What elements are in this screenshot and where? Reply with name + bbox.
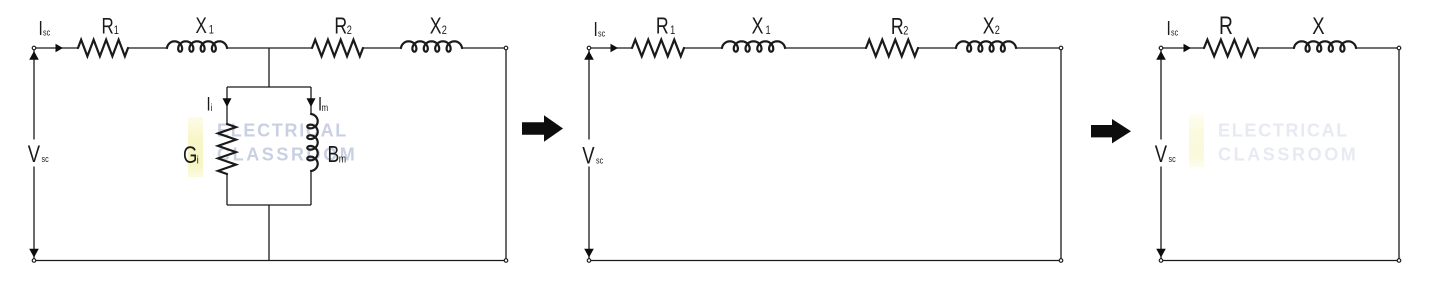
wire top segment 3 circuit1	[227, 47, 312, 49]
wire right circuit3	[1398, 48, 1400, 261]
svg-text:X: X	[196, 14, 207, 39]
svg-text:1: 1	[209, 25, 214, 37]
watermark left highlight bar	[188, 117, 203, 177]
Isc current arrow circuit1	[56, 44, 64, 53]
svg-text:2: 2	[995, 25, 1000, 37]
wire left lower segment circuit2	[588, 167, 590, 261]
node top-right circuit2	[1059, 46, 1063, 50]
svg-text:1: 1	[670, 25, 675, 37]
wire bottom circuit2	[589, 260, 1061, 262]
wire top segment 5 circuit1	[462, 47, 506, 49]
svg-text:B: B	[328, 142, 340, 168]
wire top segment 2 circuit3	[1258, 47, 1294, 49]
wire bottom circuit3	[1161, 260, 1399, 262]
svg-text:1: 1	[766, 25, 771, 37]
svg-text:ELECTRICAL: ELECTRICAL	[217, 121, 348, 141]
node top-left circuit2	[587, 46, 591, 50]
svg-text:m: m	[322, 102, 329, 113]
wire left upper segment circuit3	[1160, 48, 1162, 140]
Ii current arrow	[223, 98, 232, 107]
svg-text:V: V	[28, 141, 41, 168]
inductor X2	[401, 41, 462, 51]
svg-text:m: m	[339, 154, 346, 166]
wire Bm branch lower	[310, 171, 312, 205]
resistor R2	[312, 40, 363, 57]
node bottom-left circuit1	[32, 259, 36, 263]
Vsc arrow down circuit3	[1156, 249, 1166, 258]
node bottom-right circuit1	[504, 259, 508, 263]
resistor R1	[78, 40, 128, 57]
wire shunt top bar	[227, 86, 311, 88]
svg-text:R: R	[891, 14, 904, 40]
watermark right highlight bar	[1189, 114, 1204, 167]
inductor X1	[167, 41, 227, 51]
wire shunt return stub	[268, 205, 270, 261]
svg-text:2: 2	[442, 25, 447, 37]
svg-text:2: 2	[903, 26, 908, 38]
svg-text:G: G	[183, 142, 197, 169]
node bottom-left circuit3	[1159, 259, 1163, 263]
block arrow 1	[522, 115, 563, 141]
wire junction vertical circuit1	[268, 48, 270, 87]
svg-text:R: R	[1219, 12, 1233, 40]
svg-text:sc: sc	[596, 156, 603, 166]
wire shunt bottom bar	[227, 204, 311, 206]
resistor R1 (circuit2)	[632, 40, 684, 57]
Im current arrow	[307, 98, 316, 107]
svg-text:X: X	[1312, 13, 1324, 40]
svg-text:R: R	[102, 14, 114, 39]
resistor R2 (circuit2)	[866, 40, 918, 57]
svg-text:R: R	[656, 13, 669, 39]
Vsc arrow down circuit1	[29, 249, 39, 258]
node top-left circuit3	[1159, 46, 1163, 50]
node top-left circuit1	[32, 46, 36, 50]
conductance Gi	[218, 124, 236, 174]
wire top segment 1 circuit2	[589, 47, 632, 49]
wire left lower segment circuit3	[1160, 167, 1162, 261]
svg-text:I: I	[1167, 17, 1171, 39]
svg-text:sc: sc	[42, 154, 49, 164]
svg-text:V: V	[582, 142, 595, 169]
svg-text:sc: sc	[1169, 154, 1176, 164]
svg-text:ELECTRICAL: ELECTRICAL	[1218, 121, 1349, 141]
inductor X1 (circuit2)	[722, 41, 785, 51]
wire top segment 4 circuit1	[363, 47, 401, 49]
svg-text:i: i	[197, 154, 199, 166]
wire top segment 3 circuit2	[785, 47, 866, 49]
susceptance Bm (inductor)	[307, 114, 317, 171]
wire top segment 2 circuit2	[684, 47, 722, 49]
wire Bm branch upper	[310, 87, 312, 114]
wire top segment 4 circuit2	[918, 47, 956, 49]
svg-text:X: X	[983, 13, 995, 39]
wire top segment 3 circuit3	[1356, 47, 1399, 49]
wire top segment 1 circuit1	[34, 47, 78, 49]
wire right circuit2	[1060, 48, 1062, 261]
node bottom-left circuit2	[587, 259, 591, 263]
inductor X2 (circuit2)	[956, 41, 1016, 51]
svg-text:sc: sc	[1171, 28, 1178, 38]
wire left upper segment circuit2	[588, 48, 590, 140]
svg-text:i: i	[211, 102, 213, 113]
node bottom-right circuit2	[1059, 259, 1063, 263]
wire left lower segment circuit1	[33, 167, 35, 261]
svg-text:R: R	[334, 14, 347, 40]
svg-text:CLASSROOM: CLASSROOM	[1218, 145, 1358, 165]
svg-text:X: X	[430, 13, 442, 39]
wire top segment 5 circuit2	[1016, 47, 1061, 49]
svg-text:V: V	[1155, 141, 1168, 168]
svg-text:I: I	[39, 17, 43, 39]
Vsc arrow down circuit2	[584, 249, 594, 258]
wire top segment 2 circuit1	[128, 47, 167, 49]
svg-text:sc: sc	[598, 29, 605, 39]
Isc current arrow circuit3	[1184, 44, 1192, 53]
svg-text:2: 2	[347, 25, 352, 37]
svg-text:1: 1	[114, 25, 119, 37]
node top-right circuit1	[504, 46, 508, 50]
svg-text:I: I	[594, 18, 598, 40]
wire top segment 1 circuit3	[1161, 47, 1204, 49]
wire Gi branch lower	[226, 174, 228, 205]
resistor R	[1204, 40, 1258, 57]
Vsc arrow up circuit1	[29, 51, 39, 60]
svg-text:sc: sc	[43, 28, 50, 38]
Isc current arrow circuit2	[611, 44, 619, 53]
inductor X	[1294, 41, 1356, 51]
block arrow 2	[1091, 119, 1131, 143]
wire Gi branch upper	[226, 87, 228, 124]
wire right circuit1	[505, 48, 507, 261]
svg-text:X: X	[752, 13, 764, 39]
node top-right circuit3	[1397, 46, 1401, 50]
node bottom-right circuit3	[1397, 259, 1401, 263]
Vsc arrow up circuit3	[1156, 51, 1166, 60]
wire left upper segment circuit1	[33, 48, 35, 140]
wire bottom circuit1	[34, 260, 506, 262]
Vsc arrow up circuit2	[584, 51, 594, 60]
